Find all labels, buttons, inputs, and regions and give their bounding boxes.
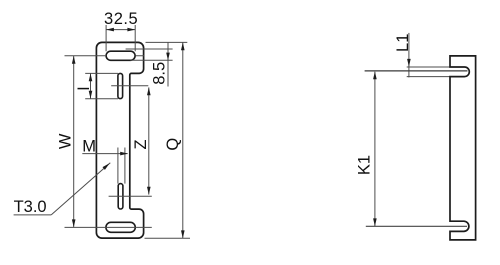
svg-text:L1: L1 xyxy=(394,34,412,52)
svg-text:Z: Z xyxy=(132,139,150,149)
svg-text:M: M xyxy=(82,137,96,155)
svg-text:W: W xyxy=(57,133,75,149)
svg-text:8.5: 8.5 xyxy=(151,62,169,85)
svg-text:I: I xyxy=(75,86,93,91)
svg-text:Q: Q xyxy=(164,138,182,151)
svg-text:K1: K1 xyxy=(355,155,373,175)
svg-text:T3.0: T3.0 xyxy=(14,198,47,216)
svg-text:32.5: 32.5 xyxy=(104,10,138,28)
